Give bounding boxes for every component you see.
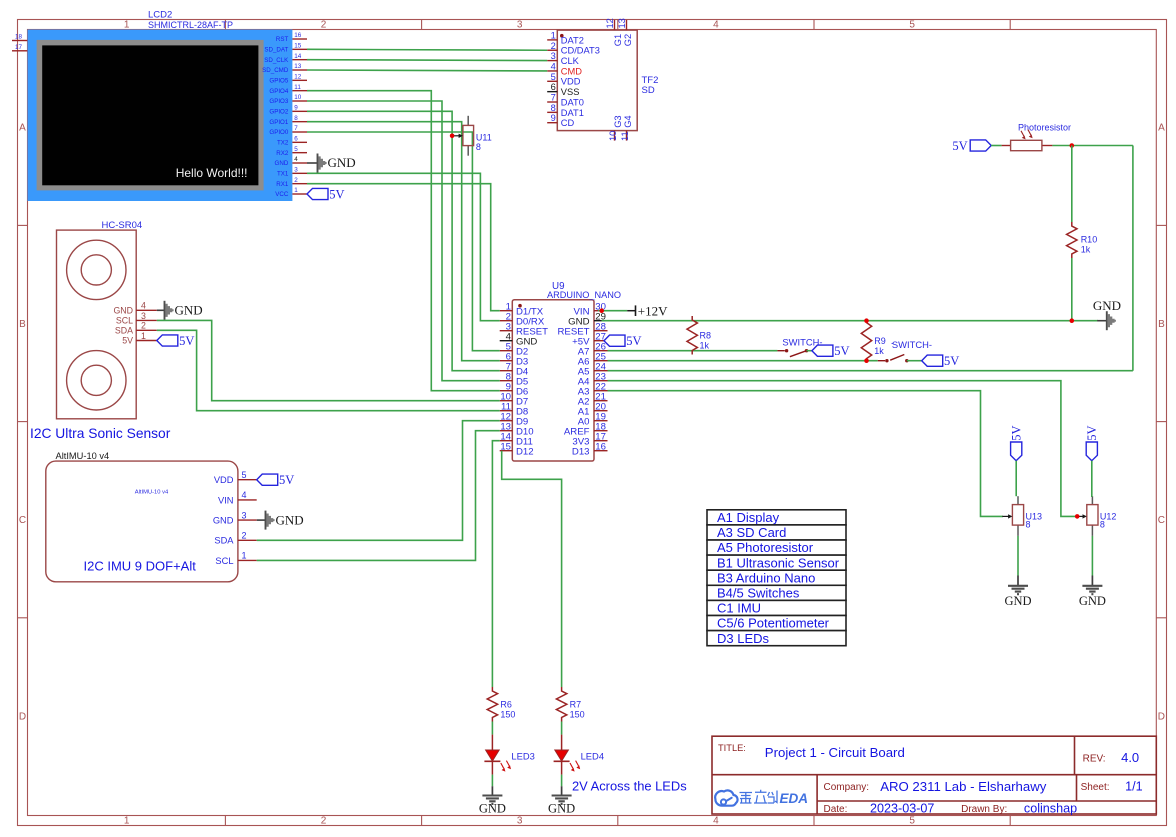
svg-text:4: 4 bbox=[294, 156, 298, 163]
svg-text:A1 Display: A1 Display bbox=[717, 510, 780, 525]
svg-text:SD_CMD: SD_CMD bbox=[262, 67, 289, 74]
wire R10 to GND net bbox=[1071, 258, 1073, 321]
wire Arduino A7 to switch 1 bbox=[608, 350, 778, 352]
svg-text:G2: G2 bbox=[623, 34, 633, 46]
wire R7 to LED4 bbox=[561, 722, 563, 735]
svg-text:I2C IMU 9 DOF+Alt: I2C IMU 9 DOF+Alt bbox=[84, 559, 197, 574]
LED LED4 bbox=[554, 735, 604, 775]
svg-text:GND: GND bbox=[479, 802, 506, 816]
SD card bottom pins 10 11 G3 G4 bbox=[608, 115, 633, 141]
svg-text:REV:: REV: bbox=[1083, 754, 1106, 765]
svg-text:GND: GND bbox=[213, 516, 234, 526]
Arduino Nano U9 body bbox=[512, 281, 621, 461]
svg-text:LED4: LED4 bbox=[581, 751, 604, 762]
5V net flag after switch 1 bbox=[807, 344, 850, 358]
ground symbol below LED3 bbox=[479, 786, 506, 815]
svg-text:1: 1 bbox=[124, 19, 130, 30]
svg-text:A1: A1 bbox=[578, 406, 590, 417]
svg-text:7: 7 bbox=[294, 125, 298, 132]
wire LCD GPIO4 to Arduino D6 bbox=[307, 91, 500, 391]
svg-text:16: 16 bbox=[294, 32, 302, 39]
wire photoresistor output to right edge bbox=[1052, 145, 1133, 147]
svg-text:1k: 1k bbox=[874, 346, 884, 356]
svg-text:CMD: CMD bbox=[561, 66, 582, 76]
svg-text:A2: A2 bbox=[578, 396, 590, 407]
svg-text:1k: 1k bbox=[700, 341, 710, 351]
svg-text:GND: GND bbox=[275, 160, 289, 167]
wire 5V flag to U13 top bbox=[1015, 461, 1017, 497]
resistor R9 1k pulldown bbox=[861, 321, 893, 361]
svg-text:5V: 5V bbox=[834, 344, 849, 358]
svg-text:4: 4 bbox=[551, 61, 556, 71]
svg-text:4: 4 bbox=[242, 490, 247, 500]
svg-text:I2C Ultra Sonic Sensor: I2C Ultra Sonic Sensor bbox=[30, 426, 171, 441]
IMU pins 5 VDD 4 VIN 3 GND 2 SDA 1 SCL bbox=[213, 470, 257, 566]
Arduino left pins 1-15 with numbers and names bbox=[500, 301, 548, 457]
svg-text:GND: GND bbox=[568, 316, 589, 327]
wire U12 bottom to ground bbox=[1091, 536, 1093, 576]
LCD left-side pins 18 and 17 bbox=[12, 34, 28, 51]
svg-text:20: 20 bbox=[595, 401, 606, 412]
junction dot on U12 wiper wire bbox=[1075, 514, 1080, 519]
svg-text:CD/DAT3: CD/DAT3 bbox=[561, 46, 600, 56]
svg-text:10: 10 bbox=[608, 131, 618, 141]
svg-text:AREF: AREF bbox=[564, 426, 590, 437]
svg-text:1: 1 bbox=[551, 30, 556, 40]
svg-text:15: 15 bbox=[500, 441, 511, 452]
wire Arduino D12 to R7 bbox=[502, 451, 562, 687]
svg-text:1: 1 bbox=[124, 815, 130, 826]
svg-text:6: 6 bbox=[551, 82, 556, 92]
+12V power net flag on Arduino VIN bbox=[598, 303, 668, 318]
svg-text:VIN: VIN bbox=[574, 306, 590, 317]
svg-text:2: 2 bbox=[242, 531, 247, 541]
svg-text:28: 28 bbox=[595, 321, 606, 332]
svg-text:8: 8 bbox=[294, 115, 298, 122]
svg-text:GND: GND bbox=[1004, 594, 1031, 608]
5V net flag on LCD pin 1 VCC bbox=[307, 187, 345, 201]
svg-text:13: 13 bbox=[294, 63, 302, 70]
resistor R6 150 bbox=[487, 687, 515, 722]
svg-text:LCD2: LCD2 bbox=[148, 10, 172, 21]
svg-text:DAT1: DAT1 bbox=[561, 108, 584, 118]
svg-text:SDA: SDA bbox=[115, 326, 133, 336]
svg-text:C: C bbox=[19, 515, 26, 526]
svg-text:9: 9 bbox=[294, 105, 298, 112]
svg-text:G3: G3 bbox=[613, 115, 623, 127]
svg-text:5V: 5V bbox=[626, 334, 641, 348]
svg-text:A: A bbox=[19, 123, 26, 134]
svg-text:4: 4 bbox=[713, 19, 719, 30]
svg-text:D13: D13 bbox=[572, 446, 590, 457]
svg-text:5: 5 bbox=[909, 19, 915, 30]
svg-text:A4: A4 bbox=[578, 376, 590, 387]
svg-text:12: 12 bbox=[605, 18, 615, 28]
svg-text:1: 1 bbox=[141, 331, 146, 341]
Arduino right pins 16-30 with numbers and names bbox=[558, 301, 608, 457]
ground symbol below U12 bbox=[1079, 576, 1106, 608]
svg-text:25: 25 bbox=[595, 351, 606, 362]
svg-text:VDD: VDD bbox=[561, 77, 581, 87]
svg-text:TX2: TX2 bbox=[277, 140, 289, 147]
svg-text:G1: G1 bbox=[613, 34, 623, 46]
svg-text:C: C bbox=[1158, 515, 1165, 526]
SD card top pins 12 13 G1 G2 bbox=[605, 18, 633, 46]
svg-text:13: 13 bbox=[617, 18, 627, 28]
svg-text:17: 17 bbox=[15, 44, 23, 51]
svg-text:SD_DAT: SD_DAT bbox=[264, 47, 288, 54]
svg-text:8: 8 bbox=[1100, 520, 1105, 530]
svg-text:2: 2 bbox=[141, 321, 146, 331]
svg-text:A3: A3 bbox=[578, 386, 590, 397]
svg-text:D: D bbox=[1158, 711, 1165, 722]
svg-text:D3 LEDs: D3 LEDs bbox=[717, 631, 770, 646]
wire LCD GPIO3 to Arduino D5 bbox=[307, 101, 500, 381]
potentiometer U12 bbox=[1077, 496, 1117, 536]
junction dot R10 on GND wire bbox=[1070, 318, 1075, 323]
svg-text:GND: GND bbox=[1079, 594, 1106, 608]
switch 1 SWITCH- bbox=[777, 336, 822, 356]
svg-text:U11: U11 bbox=[476, 133, 492, 143]
LCD right-side pins 1-16 with numbers and names bbox=[262, 32, 307, 198]
svg-text:4: 4 bbox=[713, 815, 719, 826]
svg-text:18: 18 bbox=[595, 421, 606, 432]
svg-text:VCC: VCC bbox=[275, 191, 289, 198]
resistor R10 1k bbox=[1067, 222, 1098, 258]
svg-text:A: A bbox=[1158, 123, 1165, 134]
svg-text:1/1: 1/1 bbox=[1125, 780, 1143, 794]
svg-text:15: 15 bbox=[294, 43, 302, 50]
SD card socket TF2 body bbox=[557, 30, 658, 131]
junction dot U11 wiper on GPIO2 wire bbox=[450, 134, 455, 139]
svg-text:17: 17 bbox=[595, 431, 606, 442]
svg-text:SCL: SCL bbox=[215, 556, 233, 566]
svg-text:5V: 5V bbox=[122, 336, 133, 346]
svg-text:3: 3 bbox=[517, 19, 523, 30]
svg-text:ARDUINO_NANO: ARDUINO_NANO bbox=[547, 290, 621, 300]
svg-text:D: D bbox=[19, 711, 26, 722]
svg-text:AltIMU-10 v4: AltIMU-10 v4 bbox=[56, 451, 110, 461]
svg-text:2: 2 bbox=[321, 19, 327, 30]
wire Arduino A5 to right edge bbox=[608, 370, 1133, 372]
svg-text:Date:: Date: bbox=[824, 804, 848, 815]
svg-text:GPIO4: GPIO4 bbox=[269, 88, 288, 95]
svg-text:GND: GND bbox=[328, 155, 356, 170]
svg-text:Sheet:: Sheet: bbox=[1081, 782, 1110, 793]
wire Arduino D11 to R6 bbox=[492, 441, 499, 687]
wire 5V flag to U12 top bbox=[1091, 461, 1094, 497]
svg-text:TX1: TX1 bbox=[277, 171, 289, 178]
svg-text:150: 150 bbox=[570, 710, 585, 720]
svg-text:9: 9 bbox=[551, 113, 556, 123]
svg-text:5V: 5V bbox=[279, 473, 294, 487]
5V net flag after switch 2 bbox=[907, 354, 959, 368]
ultrasonic sensor HC-SR04 body bbox=[30, 220, 171, 441]
LCD module LCD2 SHMICTRL-28AF-TP bbox=[28, 10, 293, 202]
svg-text:10: 10 bbox=[294, 94, 302, 101]
wire Arduino A4 to U12 wiper bbox=[608, 381, 1078, 517]
svg-text:5: 5 bbox=[242, 470, 247, 480]
wire R6 to LED3 bbox=[491, 722, 493, 735]
svg-text:26: 26 bbox=[595, 341, 606, 352]
svg-text:4: 4 bbox=[141, 301, 146, 311]
svg-text:A5: A5 bbox=[578, 366, 590, 377]
svg-text:GPIO5: GPIO5 bbox=[269, 78, 288, 85]
wire LCD GPIO0 to Arduino D2 bbox=[307, 132, 500, 351]
svg-text:Company:: Company: bbox=[824, 782, 870, 793]
LED LED3 bbox=[484, 735, 534, 775]
ground symbol below LED4 bbox=[548, 786, 575, 815]
svg-text:3: 3 bbox=[551, 51, 556, 61]
junction dot R9 bottom on A6 wire bbox=[864, 358, 869, 363]
5V net flag on IMU VDD bbox=[257, 473, 295, 487]
wire LCD RX1 to Arduino D1/TX bbox=[307, 184, 500, 311]
svg-text:150: 150 bbox=[500, 710, 515, 720]
wire HC-SR04 SDA to Arduino D8 bbox=[157, 330, 500, 410]
svg-text:5V: 5V bbox=[952, 139, 967, 153]
svg-text:TF2: TF2 bbox=[642, 75, 659, 86]
svg-text:SCL: SCL bbox=[116, 316, 133, 326]
svg-text:Hello World!!!: Hello World!!! bbox=[176, 166, 248, 180]
svg-text:A7: A7 bbox=[578, 346, 590, 357]
wire Arduino A3 to U13 wiper bbox=[608, 391, 1004, 517]
svg-text:R9: R9 bbox=[874, 336, 886, 346]
svg-text:14: 14 bbox=[294, 53, 302, 60]
svg-text:GND: GND bbox=[276, 512, 304, 527]
svg-text:1: 1 bbox=[294, 187, 298, 194]
svg-text:CD: CD bbox=[561, 118, 575, 128]
svg-text:AltIMU-10 v4: AltIMU-10 v4 bbox=[135, 489, 169, 495]
svg-text:2: 2 bbox=[551, 41, 556, 51]
svg-text:3: 3 bbox=[242, 510, 247, 520]
svg-text:2: 2 bbox=[294, 177, 298, 184]
svg-text:3: 3 bbox=[517, 815, 523, 826]
svg-text:GND: GND bbox=[1093, 298, 1121, 313]
svg-text:GND: GND bbox=[113, 306, 133, 316]
svg-text:5: 5 bbox=[909, 815, 915, 826]
svg-text:GND: GND bbox=[548, 802, 575, 816]
ground net flag on IMU GND bbox=[257, 511, 304, 530]
wire HC-SR04 SCL to Arduino D7 bbox=[157, 320, 500, 400]
svg-text:SD: SD bbox=[642, 85, 655, 96]
svg-text:8: 8 bbox=[1026, 520, 1031, 530]
legend table of component locations bbox=[707, 510, 846, 646]
ground symbol below U13 bbox=[1004, 576, 1031, 608]
svg-text:23: 23 bbox=[595, 371, 606, 382]
svg-text:DAT0: DAT0 bbox=[561, 97, 584, 107]
svg-text:11: 11 bbox=[294, 84, 301, 91]
svg-text:B: B bbox=[1158, 319, 1165, 330]
svg-text:+5V: +5V bbox=[572, 336, 590, 347]
svg-text:Drawn By:: Drawn By: bbox=[961, 804, 1007, 815]
svg-text:3: 3 bbox=[141, 311, 146, 321]
potentiometer U11 bbox=[452, 116, 492, 156]
svg-text:5V: 5V bbox=[1085, 425, 1099, 440]
5V net flag feeding photoresistor bbox=[952, 139, 991, 153]
svg-text:22: 22 bbox=[595, 381, 606, 392]
potentiometer U13 bbox=[1002, 496, 1042, 536]
svg-text:R6: R6 bbox=[500, 700, 512, 710]
wire LCD SD_CLK to SD CLK bbox=[307, 59, 547, 62]
IMU module AltIMU-10 v4 body bbox=[46, 451, 238, 582]
svg-text:R7: R7 bbox=[570, 700, 582, 710]
svg-text:3: 3 bbox=[294, 167, 298, 174]
svg-text:5V: 5V bbox=[1010, 425, 1024, 440]
resistor R8 1k pulldown bbox=[687, 316, 711, 355]
ground net flag on LCD pin 4 GND bbox=[307, 154, 356, 173]
svg-text:VSS: VSS bbox=[561, 87, 580, 97]
svg-text:5V: 5V bbox=[329, 187, 344, 201]
5V net flag on Arduino +5V pin 27 bbox=[604, 334, 642, 348]
svg-text:GPIO1: GPIO1 bbox=[269, 119, 288, 126]
svg-text:19: 19 bbox=[595, 411, 606, 422]
svg-text:8: 8 bbox=[551, 103, 556, 113]
wire junction to R10 bbox=[1071, 146, 1073, 223]
svg-text:A3 SD Card: A3 SD Card bbox=[717, 525, 786, 540]
svg-text:18: 18 bbox=[15, 34, 23, 41]
svg-text:B3 Arduino Nano: B3 Arduino Nano bbox=[717, 570, 815, 585]
svg-text:16: 16 bbox=[595, 441, 606, 452]
svg-text:21: 21 bbox=[595, 391, 606, 402]
wire LCD GPIO2 to Arduino D4 bbox=[307, 111, 500, 370]
svg-text:7: 7 bbox=[551, 93, 556, 103]
svg-text:SD_CLK: SD_CLK bbox=[264, 57, 289, 64]
svg-text:R10: R10 bbox=[1081, 235, 1098, 245]
svg-text:GPIO2: GPIO2 bbox=[269, 109, 288, 116]
svg-text:RST: RST bbox=[276, 36, 289, 43]
ground net flag at end of GND wire bbox=[1093, 298, 1121, 330]
svg-text:+12V: +12V bbox=[638, 303, 668, 318]
svg-text:5V: 5V bbox=[179, 334, 194, 348]
svg-text:RESET: RESET bbox=[558, 326, 590, 337]
svg-text:G4: G4 bbox=[623, 115, 633, 127]
svg-text:4.0: 4.0 bbox=[1121, 750, 1139, 765]
wire IMU SDA to Arduino D9 bbox=[257, 421, 500, 541]
wire Arduino A6 to switch 2 bbox=[608, 360, 878, 362]
svg-text:R8: R8 bbox=[700, 331, 712, 341]
svg-text:5: 5 bbox=[294, 146, 298, 153]
svg-text:12: 12 bbox=[294, 74, 302, 81]
svg-text:EDA: EDA bbox=[780, 791, 809, 806]
svg-text:VIN: VIN bbox=[218, 495, 234, 505]
svg-text:2: 2 bbox=[321, 815, 327, 826]
svg-text:A5 Photoresistor: A5 Photoresistor bbox=[717, 540, 814, 555]
svg-text:D12: D12 bbox=[516, 446, 534, 457]
svg-text:6: 6 bbox=[294, 136, 298, 143]
EasyEDA logo bbox=[715, 790, 808, 806]
svg-text:SWITCH-: SWITCH- bbox=[892, 339, 932, 350]
wire Arduino GND pin29 to GND flag far right bbox=[602, 320, 1099, 322]
wire LED3 to ground bbox=[491, 775, 493, 787]
svg-text:VDD: VDD bbox=[214, 475, 234, 485]
wire LED4 to ground bbox=[561, 775, 563, 787]
svg-text:5V: 5V bbox=[944, 354, 959, 368]
junction dot photoresistor divider bbox=[1070, 143, 1075, 148]
wire right edge down to A5 row bbox=[1132, 146, 1134, 371]
svg-text:8: 8 bbox=[476, 142, 481, 152]
switch 2 SWITCH- bbox=[878, 339, 932, 362]
svg-text:GPIO3: GPIO3 bbox=[269, 98, 288, 105]
svg-text:C1 IMU: C1 IMU bbox=[717, 601, 761, 616]
svg-text:B4/5 Switches: B4/5 Switches bbox=[717, 586, 800, 601]
wire U13 bottom to ground bbox=[1017, 536, 1019, 576]
svg-text:A0: A0 bbox=[578, 416, 590, 427]
wire LCD TX1 to Arduino D0/RX bbox=[307, 173, 500, 320]
svg-text:1: 1 bbox=[242, 551, 247, 561]
svg-text:DAT2: DAT2 bbox=[561, 35, 584, 45]
wire LCD SD_DAT to SD CD/DAT3 bbox=[307, 48, 547, 51]
svg-text:LED3: LED3 bbox=[511, 751, 534, 762]
svg-text:HC-SR04: HC-SR04 bbox=[102, 220, 143, 231]
title block bbox=[712, 736, 1156, 815]
5V net flag above U12 bbox=[1085, 425, 1099, 460]
svg-text:RX1: RX1 bbox=[276, 181, 289, 188]
junction dot R9 top on GND wire bbox=[864, 318, 869, 323]
resistor R7 150 bbox=[556, 687, 584, 722]
svg-text:A6: A6 bbox=[578, 356, 590, 367]
svg-text:Photoresistor: Photoresistor bbox=[1018, 123, 1071, 133]
svg-text:C5/6 Potentiometer: C5/6 Potentiometer bbox=[717, 616, 830, 631]
svg-text:5: 5 bbox=[551, 72, 556, 82]
SD card pins 1-9 with numbers and names bbox=[547, 30, 600, 128]
svg-text:3V3: 3V3 bbox=[572, 436, 589, 447]
5V net flag above U13 bbox=[1010, 425, 1024, 460]
svg-text:TITLE:: TITLE: bbox=[718, 743, 746, 753]
junction dot on VIN wire bbox=[599, 308, 604, 313]
svg-text:24: 24 bbox=[595, 361, 606, 372]
svg-text:11: 11 bbox=[620, 131, 630, 141]
wire IMU SCL to Arduino D10 bbox=[257, 431, 500, 561]
svg-text:GND: GND bbox=[175, 303, 203, 318]
wire LCD SD_CMD to SD CMD bbox=[307, 69, 547, 72]
svg-text:GPIO0: GPIO0 bbox=[269, 129, 288, 136]
5V net flag on HC-SR04 pin 1 bbox=[157, 334, 195, 348]
svg-text:1k: 1k bbox=[1081, 245, 1091, 255]
svg-text:2V Across the LEDs: 2V Across the LEDs bbox=[572, 779, 687, 794]
svg-text:SDA: SDA bbox=[214, 536, 234, 546]
ground net flag on HC-SR04 GND bbox=[157, 301, 203, 320]
svg-text:ARO 2311 Lab - Elsharhawy: ARO 2311 Lab - Elsharhawy bbox=[880, 779, 1047, 794]
svg-text:RX2: RX2 bbox=[276, 150, 289, 157]
svg-text:Project 1 - Circuit Board: Project 1 - Circuit Board bbox=[765, 745, 905, 760]
svg-text:colinshap: colinshap bbox=[1024, 802, 1077, 816]
HC-SR04 pins 4 GND 3 SCL 2 SDA 1 5V bbox=[113, 301, 156, 346]
svg-text:SHMICTRL-28AF-TP: SHMICTRL-28AF-TP bbox=[148, 20, 233, 30]
svg-text:B1 Ultrasonic Sensor: B1 Ultrasonic Sensor bbox=[717, 555, 840, 570]
svg-text:2023-03-07: 2023-03-07 bbox=[870, 802, 934, 816]
wire LCD GPIO1 to Arduino D3 bbox=[307, 122, 500, 361]
photoresistor LDR bbox=[991, 123, 1071, 151]
svg-text:B: B bbox=[19, 319, 26, 330]
svg-text:CLK: CLK bbox=[561, 56, 580, 66]
